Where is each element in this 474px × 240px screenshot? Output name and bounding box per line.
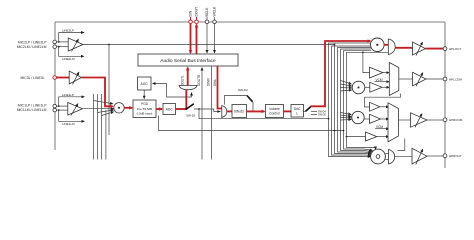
wire row A amp output to bus xyxy=(83,44,335,46)
pin HPLCOM xyxy=(443,77,447,81)
svg-text:MIC2LM / LINE2LM: MIC2LM / LINE2LM xyxy=(17,45,47,49)
pin HPLOUT xyxy=(443,47,447,51)
svg-text:DOUT: DOUT xyxy=(195,7,199,17)
wire circle3 to amp xyxy=(364,118,370,120)
svg-text:DAC: DAC xyxy=(294,107,301,111)
wire stub into input mixer b xyxy=(98,110,114,113)
node junction bypass C P xyxy=(58,105,60,107)
pin DOUT wire (red) xyxy=(196,17,198,20)
svg-text:DINL: DINL xyxy=(213,79,217,86)
bus line b6 xyxy=(344,51,373,151)
mux DOUTL source (dome) xyxy=(179,86,197,90)
bus line b4 xyxy=(338,48,372,153)
wire tap to row2 buffer xyxy=(362,51,364,53)
svg-text:HPLOUT: HPLOUT xyxy=(449,47,461,51)
pin BCLK wire xyxy=(206,17,208,20)
svg-text:BCLK: BCLK xyxy=(205,7,209,17)
wire stub into input mixer a xyxy=(94,101,114,104)
pin MIC1LP terminal xyxy=(53,104,57,108)
wire row A branch down xyxy=(108,45,110,136)
wire mux4 to amp4 xyxy=(395,155,412,157)
wire mux3 tap down to mux4 xyxy=(398,139,405,151)
stub arrows into HPRCOM mixer xyxy=(341,113,352,115)
svg-text:SW-D5: SW-D5 xyxy=(318,114,326,117)
svg-text:AGC: AGC xyxy=(141,82,149,86)
pin DOUT terminal xyxy=(195,20,199,24)
bus line b3 rowA junction xyxy=(334,44,336,46)
svg-text:LINE1LP: LINE1LP xyxy=(62,93,74,97)
wire amp to HPLCOM pin xyxy=(426,78,443,80)
wire mux2 to amp3 xyxy=(399,78,413,80)
svg-text:DOUTR: DOUTR xyxy=(197,74,201,86)
pin DIN wire (red) xyxy=(190,17,192,20)
wire left bus vertical 1 xyxy=(93,94,95,160)
mixer HPLOUT summing circle xyxy=(371,38,385,52)
mixer HPRCOM circle xyxy=(352,111,364,123)
wire circle to amp2 xyxy=(365,86,370,88)
wire left bus vertical 2 xyxy=(97,94,99,160)
wire MIC3L to amp (red) xyxy=(57,77,70,79)
mux row4 xyxy=(389,150,395,165)
mux row2 xyxy=(389,63,399,96)
svg-text:MIC2LP / LINE2LP: MIC2LP / LINE2LP xyxy=(18,40,47,44)
bus line b1: top corner to HPLOUT mixer, down to row4 bundle xyxy=(329,43,371,157)
wire AGC to PGA xyxy=(143,90,145,99)
wire DINR xyxy=(211,66,213,160)
wire Volume Control to DAC L (red) xyxy=(284,110,292,112)
svg-text:DINR: DINR xyxy=(207,78,211,86)
wire DOUTR xyxy=(201,68,203,160)
amp HPROUT xyxy=(412,148,427,164)
wire Effects to Volume Control (red) xyxy=(247,110,265,112)
svg-text:SW-D1: SW-D1 xyxy=(186,113,196,117)
bus line b2 xyxy=(332,46,371,155)
wire MIC2LM to amp xyxy=(57,46,69,48)
svg-text:LINE2LP: LINE2LP xyxy=(62,29,74,33)
wire mux2 bottom tap to row3 buffer xyxy=(365,94,401,108)
chip outline right edge xyxy=(444,22,446,168)
amp input PGA row C xyxy=(68,103,83,116)
wire LINE2LM bypass xyxy=(59,47,84,57)
pin HPROUT xyxy=(443,154,447,158)
mux row1 xyxy=(388,39,395,55)
wire PGA to ADC (red) xyxy=(156,108,162,110)
node row A branch xyxy=(108,44,110,46)
wire mux row1 to amp (red) xyxy=(395,47,412,49)
amp row2 buffer2 xyxy=(370,82,382,92)
PGA block xyxy=(133,100,156,118)
switch SW-D3 after DAC xyxy=(304,110,306,112)
wire buffer1 to mux2 xyxy=(383,72,390,74)
chip outline left edge xyxy=(54,22,56,150)
svg-text:Effects: Effects xyxy=(234,109,244,113)
wire MIC2LP to amp xyxy=(57,41,69,43)
pin WCLK wire xyxy=(214,17,216,20)
node junction bypass M xyxy=(58,46,60,48)
wire amp to HPLOUT pin (red) xyxy=(426,48,444,50)
pin MIC1LM terminal xyxy=(53,108,57,112)
bus line b5 xyxy=(341,49,372,152)
stub label line a xyxy=(311,111,317,113)
AGC block xyxy=(138,77,152,90)
svg-text:0 to 59.5dB: 0 to 59.5dB xyxy=(137,107,152,111)
pin DIN terminal xyxy=(189,20,193,24)
wire mid horizontal A xyxy=(198,108,200,110)
wire row B amp output (red) to input mixer xyxy=(82,78,113,107)
svg-text:ADC: ADC xyxy=(166,107,174,111)
svg-text:Volume: Volume xyxy=(269,107,280,111)
mixer HPROUT circle xyxy=(371,149,386,164)
pin MIC2LM terminal xyxy=(53,45,57,49)
pin MIC3L terminal xyxy=(53,76,57,80)
wire mid horizontal B xyxy=(159,116,344,131)
pin MIC2LP terminal xyxy=(53,40,57,44)
stub arrows into HPLCOM mixer xyxy=(341,81,352,85)
amp row3 buffer1 xyxy=(370,102,380,111)
amp input PGA row A xyxy=(68,38,83,51)
wire input mixer to PGA (red) xyxy=(124,107,132,109)
wire amp4 to HPROUT pin xyxy=(427,155,443,157)
Effects block xyxy=(232,105,247,118)
wire stub into input mixer c xyxy=(102,112,114,116)
wire circle to mux row1 (red) xyxy=(384,44,388,46)
amp HPLCOM xyxy=(413,72,427,86)
svg-text:Audio Serial Bus Interface: Audio Serial Bus Interface xyxy=(160,58,216,64)
wire DINL (red) ASI to effects mux xyxy=(218,66,222,109)
wire mux to Effects (red) xyxy=(227,110,232,112)
svg-text:LINE1LM: LINE1LM xyxy=(62,122,75,126)
amp row3 buffer2 xyxy=(370,114,381,123)
svg-text:WCLK: WCLK xyxy=(213,6,217,17)
svg-text:Control: Control xyxy=(269,111,280,115)
ADC block xyxy=(163,104,176,115)
wire SW-D1 to effects mux xyxy=(194,109,220,112)
svg-text:HPRCOM: HPRCOM xyxy=(449,118,463,122)
amp row2 buffer1 xyxy=(370,67,383,78)
amp input PGA row B xyxy=(69,71,81,84)
DAC L block xyxy=(291,105,304,118)
wire left bus vertical 3 xyxy=(101,94,103,160)
wire buffer2 to mux2 xyxy=(382,86,389,88)
wire mux3 to amp xyxy=(399,119,411,121)
wire LINE2LP bypass xyxy=(59,33,84,42)
wire LINE1LM bypass xyxy=(59,110,85,121)
svg-text:VCM: VCM xyxy=(376,125,383,129)
svg-text:MIC1LM / LINE1LM: MIC1LM / LINE1LM xyxy=(17,108,47,112)
mixer HPLCOM circle xyxy=(352,81,365,94)
pin BCLK terminal xyxy=(205,20,209,24)
svg-text:PGA: PGA xyxy=(141,102,149,106)
amp row3 buffer3 xyxy=(346,136,348,138)
wire AGC tap to DOUTL mux xyxy=(167,93,192,98)
svg-text:DIN: DIN xyxy=(189,10,193,16)
node junction bypass P xyxy=(58,41,60,43)
wire row C amp output to input mixer xyxy=(83,108,114,110)
svg-text:MIC3L / LINE3L: MIC3L / LINE3L xyxy=(21,76,45,80)
svg-text:HPLCOM: HPLCOM xyxy=(449,77,462,81)
wire DAC L to bus (red) xyxy=(311,41,371,106)
mux DAC-L input (D shape) xyxy=(222,106,227,118)
amp HPLOUT xyxy=(413,42,426,55)
svg-text:DOUTL: DOUTL xyxy=(180,75,184,86)
stub label line b xyxy=(311,114,317,116)
svg-text:0.5dB steps: 0.5dB steps xyxy=(137,112,153,116)
wire circle4 to mux4 b xyxy=(385,159,388,161)
wire ADC output (red) xyxy=(176,108,187,110)
Audio Serial Bus Interface block xyxy=(138,54,238,66)
chip outline top edge xyxy=(55,21,445,23)
node junction bypass C M xyxy=(58,109,60,111)
amp HPRCOM xyxy=(411,113,428,127)
mux row3 xyxy=(388,103,399,142)
wire LINE1LP bypass xyxy=(59,97,85,106)
bus line b7: VCM rail xyxy=(347,52,389,149)
wire circle4 to mux4 a xyxy=(385,153,388,155)
svg-text:HPROUT: HPROUT xyxy=(449,154,462,158)
svg-text:L: L xyxy=(296,112,298,116)
wire (red) ADC output up into DOUTL mux xyxy=(185,90,187,110)
wire AGC sense xyxy=(153,84,167,98)
wire MIC1LP to amp xyxy=(57,105,69,107)
mixer input level control circle xyxy=(114,103,124,113)
switch SW-D1 xyxy=(185,108,187,110)
svg-text:SW-D2: SW-D2 xyxy=(238,88,248,92)
wire left bus vertical 4 xyxy=(105,110,107,160)
wire MIC1LM to amp xyxy=(57,109,69,111)
pin HPRCOM xyxy=(443,118,447,122)
Volume Control block xyxy=(266,105,284,118)
wire DOUTL (red) mux output to ASI xyxy=(187,68,189,86)
svg-text:VCM: VCM xyxy=(376,78,383,82)
pin WCLK terminal xyxy=(213,20,217,24)
wire amp to HPRCOM pin xyxy=(427,119,443,121)
svg-text:LINE2LM: LINE2LM xyxy=(62,57,75,61)
